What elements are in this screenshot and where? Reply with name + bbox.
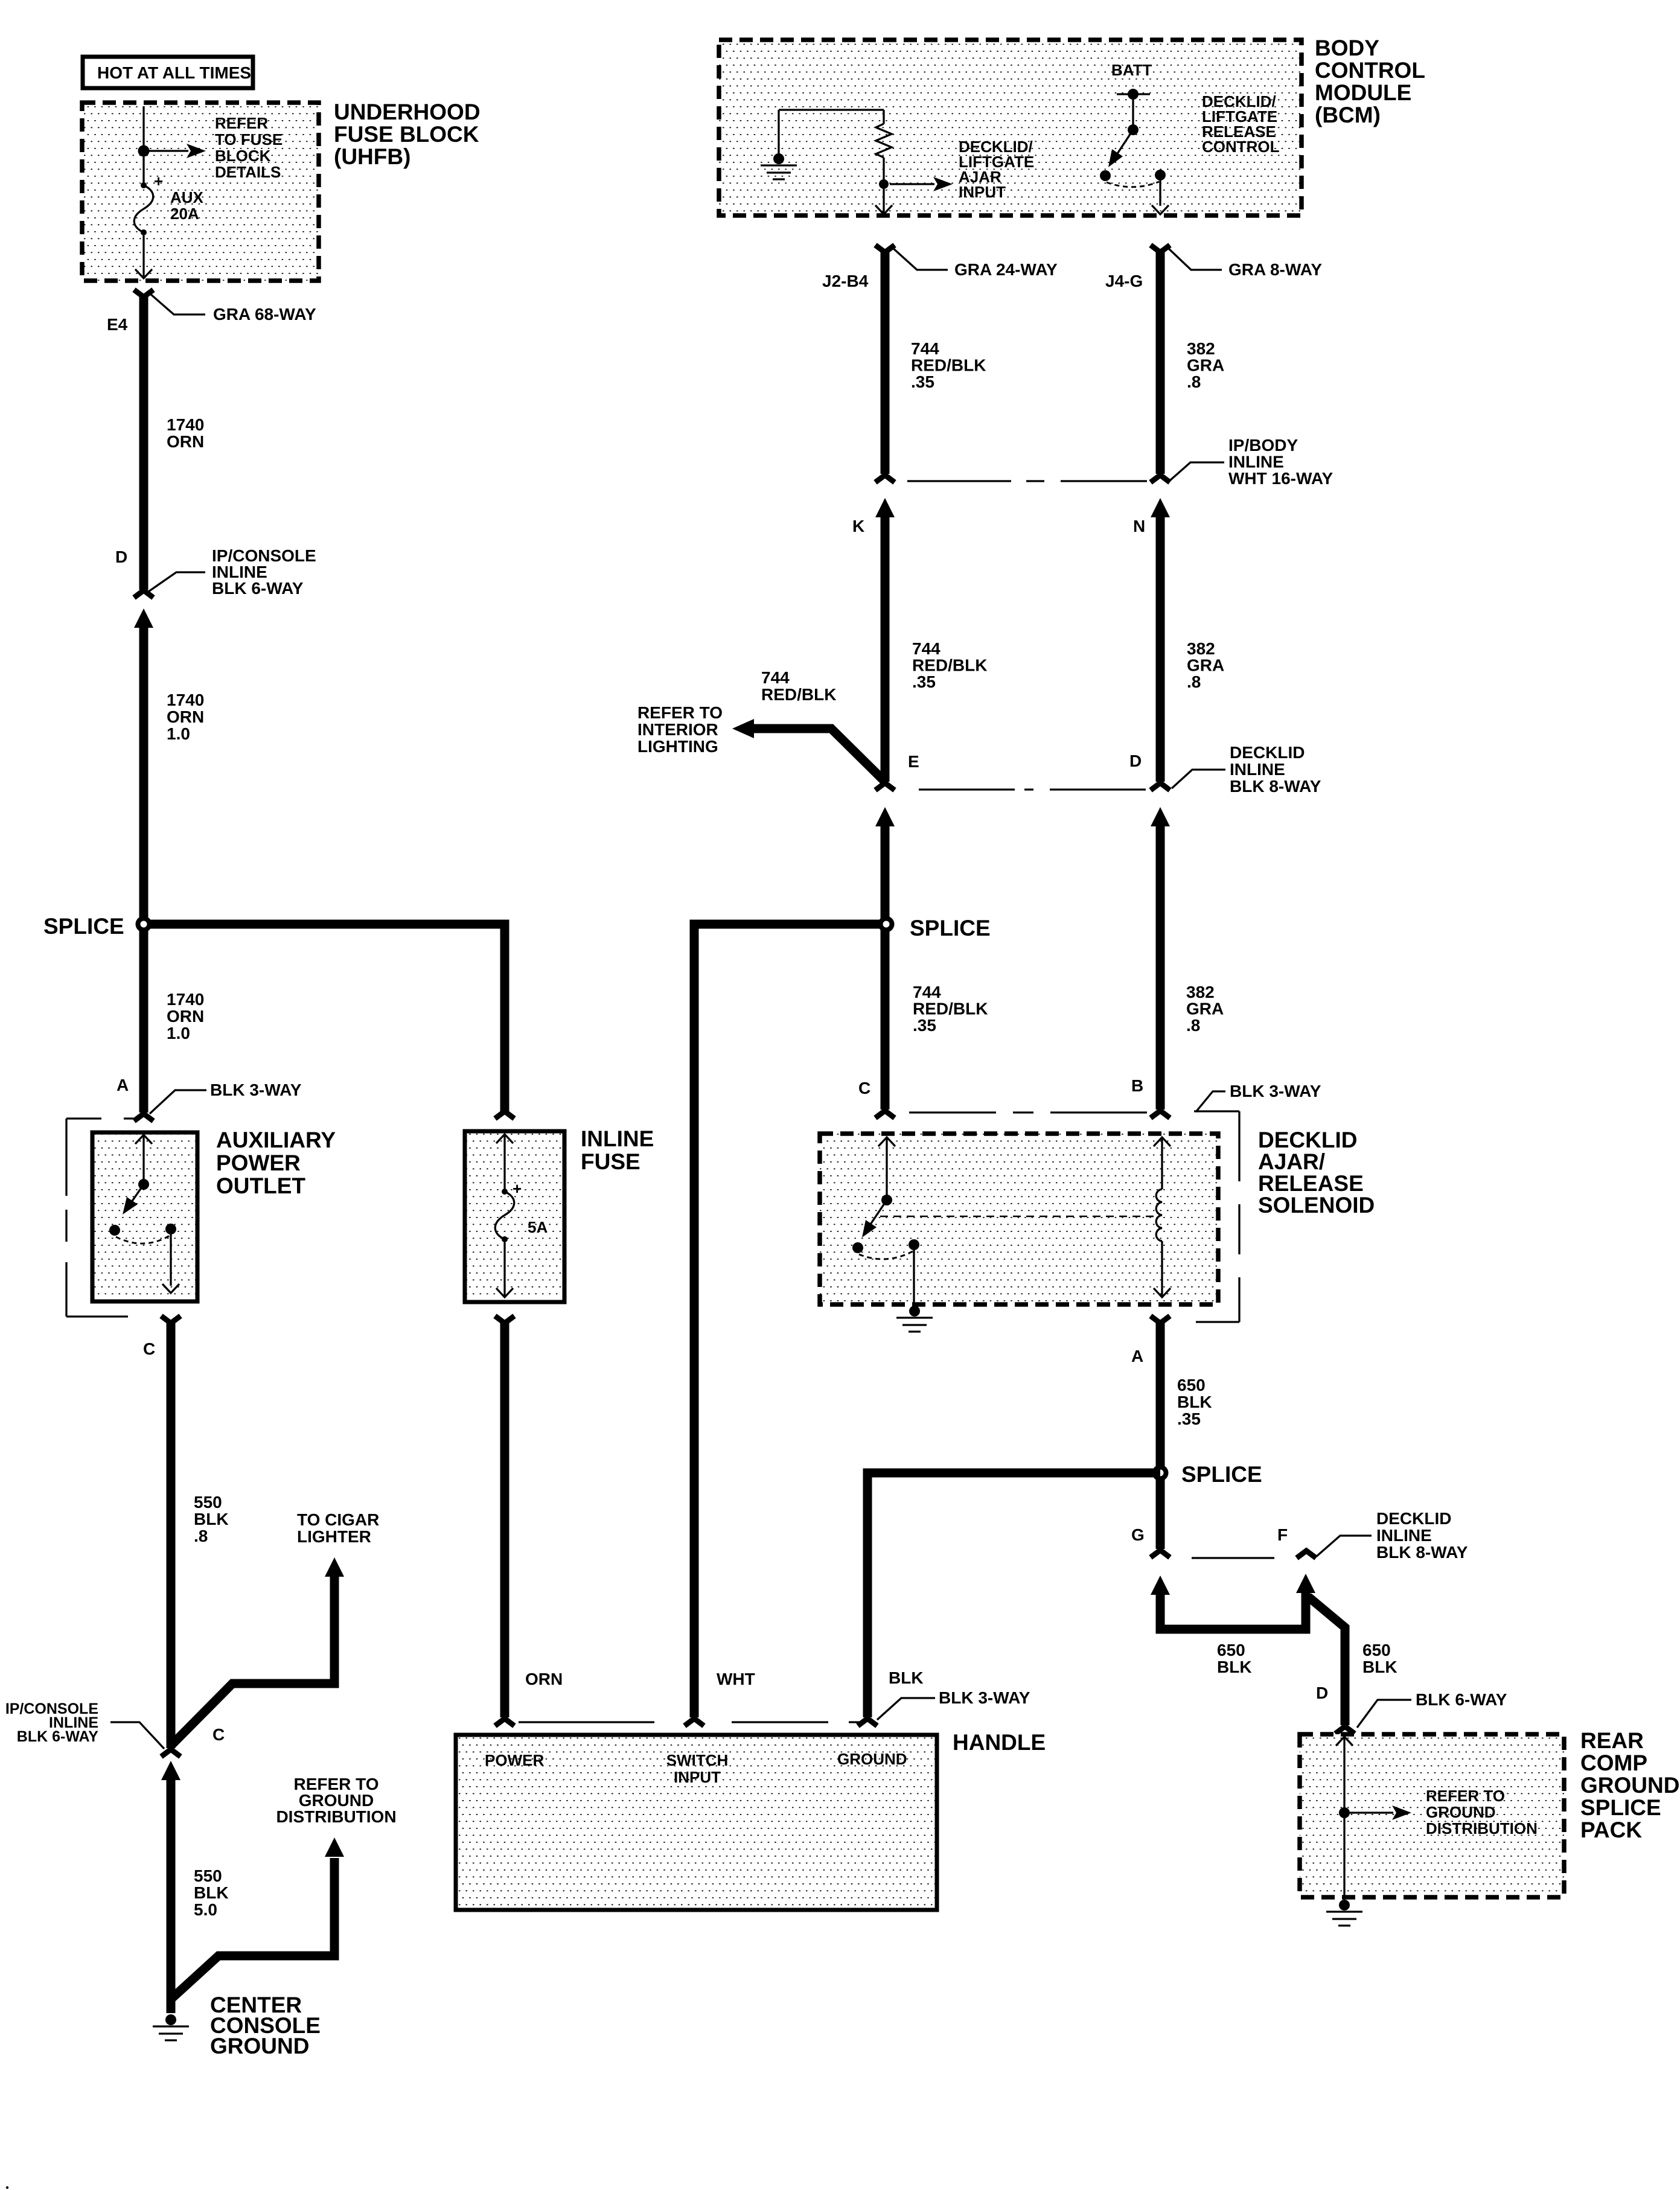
svg-text:E: E bbox=[908, 752, 919, 771]
svg-text:J2-B4: J2-B4 bbox=[822, 272, 869, 290]
svg-text:744: 744 bbox=[911, 339, 939, 358]
svg-text:382: 382 bbox=[1187, 639, 1215, 658]
svg-text:CONTROL: CONTROL bbox=[1315, 58, 1425, 83]
svg-text:F: F bbox=[1277, 1525, 1288, 1544]
svg-text:CONTROL: CONTROL bbox=[1202, 138, 1280, 156]
svg-text:744: 744 bbox=[761, 668, 790, 687]
svg-text:A: A bbox=[1131, 1347, 1143, 1365]
svg-text:INLINE: INLINE bbox=[1230, 760, 1285, 779]
svg-text:650: 650 bbox=[1177, 1376, 1206, 1394]
svg-text:382: 382 bbox=[1187, 339, 1215, 358]
svg-text:.35: .35 bbox=[911, 372, 934, 391]
svg-text:BLK 3-WAY: BLK 3-WAY bbox=[1230, 1082, 1321, 1100]
svg-text:(BCM): (BCM) bbox=[1315, 103, 1381, 127]
svg-text:.35: .35 bbox=[913, 1016, 936, 1035]
svg-text:TO CIGAR: TO CIGAR bbox=[297, 1510, 379, 1529]
svg-text:POWER: POWER bbox=[485, 1751, 544, 1769]
svg-text:SPLICE: SPLICE bbox=[910, 916, 991, 940]
svg-text:FUSE: FUSE bbox=[581, 1149, 640, 1174]
svg-text:BLK: BLK bbox=[889, 1668, 924, 1687]
svg-text:744: 744 bbox=[913, 983, 941, 1001]
svg-text:HANDLE: HANDLE bbox=[953, 1730, 1046, 1755]
svg-text:RED/BLK: RED/BLK bbox=[911, 356, 986, 375]
svg-text:.8: .8 bbox=[1187, 372, 1201, 391]
svg-text:550: 550 bbox=[194, 1493, 222, 1512]
svg-text:+: + bbox=[154, 172, 163, 190]
svg-text:HOT AT ALL TIMES: HOT AT ALL TIMES bbox=[97, 63, 251, 82]
svg-text:K: K bbox=[852, 517, 864, 535]
svg-text:UNDERHOOD: UNDERHOOD bbox=[334, 100, 481, 124]
svg-text:AUXILIARY: AUXILIARY bbox=[216, 1128, 336, 1152]
svg-text:TO FUSE: TO FUSE bbox=[215, 130, 283, 148]
svg-text:BLK 6-WAY: BLK 6-WAY bbox=[212, 579, 304, 598]
svg-text:BLK: BLK bbox=[1177, 1393, 1212, 1411]
svg-text:550: 550 bbox=[194, 1866, 222, 1885]
svg-text:C: C bbox=[143, 1339, 155, 1358]
svg-text:REFER: REFER bbox=[215, 114, 268, 132]
svg-text:DISTRIBUTION: DISTRIBUTION bbox=[1426, 1819, 1538, 1837]
svg-text:J4-G: J4-G bbox=[1105, 272, 1143, 290]
svg-text:.8: .8 bbox=[194, 1527, 208, 1545]
svg-text:A: A bbox=[117, 1076, 129, 1094]
svg-text:(UHFB): (UHFB) bbox=[334, 144, 410, 169]
svg-text:C: C bbox=[858, 1079, 870, 1097]
svg-text:BLK: BLK bbox=[1362, 1658, 1397, 1676]
svg-text:INLINE: INLINE bbox=[1228, 453, 1284, 471]
svg-text:C: C bbox=[212, 1725, 225, 1744]
svg-text:.8: .8 bbox=[1187, 672, 1201, 691]
svg-text:.8: .8 bbox=[1186, 1016, 1200, 1035]
svg-text:BLK 3-WAY: BLK 3-WAY bbox=[939, 1688, 1030, 1707]
svg-text:SPLICE: SPLICE bbox=[1580, 1795, 1661, 1820]
svg-text:BLK: BLK bbox=[194, 1510, 229, 1528]
svg-text:BLK 8-WAY: BLK 8-WAY bbox=[1376, 1543, 1468, 1562]
svg-text:D: D bbox=[115, 547, 127, 566]
svg-text:5.0: 5.0 bbox=[194, 1900, 217, 1919]
svg-text:RED/BLK: RED/BLK bbox=[913, 1000, 988, 1018]
svg-text:1740: 1740 bbox=[167, 990, 204, 1009]
svg-text:GROUND: GROUND bbox=[837, 1750, 907, 1768]
svg-text:INPUT: INPUT bbox=[959, 183, 1006, 201]
svg-text:D: D bbox=[1129, 752, 1142, 770]
svg-text:BODY: BODY bbox=[1315, 36, 1379, 60]
svg-text:INLINE: INLINE bbox=[1376, 1526, 1432, 1545]
svg-text:382: 382 bbox=[1186, 983, 1215, 1001]
svg-text:ORN: ORN bbox=[167, 1007, 204, 1026]
svg-text:MODULE: MODULE bbox=[1315, 80, 1411, 105]
svg-text:INPUT: INPUT bbox=[674, 1768, 721, 1786]
svg-text:B: B bbox=[1131, 1076, 1143, 1095]
svg-text:REFER TO: REFER TO bbox=[637, 703, 723, 722]
svg-text:LIGHTING: LIGHTING bbox=[637, 737, 718, 756]
svg-text:E4: E4 bbox=[107, 315, 128, 334]
svg-text:DETAILS: DETAILS bbox=[215, 163, 281, 181]
svg-text:ORN: ORN bbox=[167, 432, 204, 451]
svg-text:BLK: BLK bbox=[1217, 1658, 1252, 1676]
svg-text:744: 744 bbox=[912, 639, 941, 658]
svg-text:GRA: GRA bbox=[1187, 356, 1224, 375]
svg-text:OUTLET: OUTLET bbox=[216, 1173, 305, 1198]
svg-text:BLK 3-WAY: BLK 3-WAY bbox=[210, 1081, 302, 1099]
svg-text:D: D bbox=[1316, 1684, 1328, 1702]
svg-text:AUX: AUX bbox=[170, 188, 204, 206]
svg-text:WHT: WHT bbox=[717, 1670, 755, 1688]
svg-text:GRA 68-WAY: GRA 68-WAY bbox=[213, 305, 316, 324]
svg-text:PACK: PACK bbox=[1580, 1818, 1642, 1842]
svg-text:FUSE BLOCK: FUSE BLOCK bbox=[334, 122, 479, 147]
svg-text:DECKLID: DECKLID bbox=[1376, 1509, 1451, 1528]
svg-text:WHT 16-WAY: WHT 16-WAY bbox=[1228, 469, 1333, 488]
svg-text:COMP: COMP bbox=[1580, 1751, 1647, 1775]
svg-text:.35: .35 bbox=[1177, 1409, 1201, 1428]
svg-text:.35: .35 bbox=[912, 672, 936, 691]
svg-text:REAR: REAR bbox=[1580, 1728, 1644, 1753]
svg-text:BATT: BATT bbox=[1111, 61, 1152, 79]
svg-text:GROUND: GROUND bbox=[210, 2034, 309, 2058]
svg-text:INTERIOR: INTERIOR bbox=[637, 720, 718, 739]
svg-text:GRA: GRA bbox=[1186, 1000, 1224, 1018]
svg-text:SOLENOID: SOLENOID bbox=[1258, 1193, 1375, 1218]
svg-text:RED/BLK: RED/BLK bbox=[761, 685, 836, 704]
svg-text:GROUND: GROUND bbox=[1426, 1803, 1496, 1821]
svg-text:5A: 5A bbox=[528, 1218, 548, 1236]
svg-text:BLOCK: BLOCK bbox=[215, 147, 271, 165]
svg-text:LIGHTER: LIGHTER bbox=[297, 1527, 371, 1546]
svg-text:BLK: BLK bbox=[194, 1883, 229, 1902]
svg-text:POWER: POWER bbox=[216, 1151, 301, 1175]
svg-text:GROUND: GROUND bbox=[1580, 1773, 1679, 1798]
svg-text:RED/BLK: RED/BLK bbox=[912, 656, 987, 675]
svg-text:650: 650 bbox=[1217, 1641, 1245, 1659]
svg-text:GRA 24-WAY: GRA 24-WAY bbox=[954, 260, 1058, 279]
svg-text:G: G bbox=[1131, 1525, 1145, 1544]
svg-text:1740: 1740 bbox=[167, 415, 204, 434]
svg-text:1740: 1740 bbox=[167, 691, 204, 709]
svg-text:DISTRIBUTION: DISTRIBUTION bbox=[276, 1807, 396, 1826]
svg-text:GRA: GRA bbox=[1187, 656, 1224, 675]
svg-text:ORN: ORN bbox=[525, 1670, 563, 1688]
svg-text:N: N bbox=[1133, 517, 1145, 535]
svg-text:SWITCH: SWITCH bbox=[666, 1751, 729, 1769]
svg-text:REFER TO: REFER TO bbox=[1426, 1787, 1505, 1805]
svg-text:BLK 8-WAY: BLK 8-WAY bbox=[1230, 777, 1321, 796]
svg-text:AJAR/: AJAR/ bbox=[1258, 1149, 1325, 1174]
svg-text:INLINE: INLINE bbox=[581, 1126, 654, 1151]
svg-text:BLK 6-WAY: BLK 6-WAY bbox=[1416, 1690, 1507, 1709]
svg-text:RELEASE: RELEASE bbox=[1258, 1171, 1364, 1196]
svg-text:IP/BODY: IP/BODY bbox=[1228, 436, 1298, 455]
svg-text:1.0: 1.0 bbox=[167, 1024, 190, 1042]
svg-text:DECKLID: DECKLID bbox=[1258, 1128, 1357, 1152]
svg-text:GRA 8-WAY: GRA 8-WAY bbox=[1228, 260, 1322, 279]
svg-text:+: + bbox=[513, 1180, 522, 1198]
svg-text:BLK 6-WAY: BLK 6-WAY bbox=[17, 1728, 99, 1745]
svg-text:SPLICE: SPLICE bbox=[1181, 1462, 1262, 1487]
svg-text:650: 650 bbox=[1362, 1641, 1391, 1659]
svg-text:SPLICE: SPLICE bbox=[43, 914, 124, 939]
svg-text:DECKLID: DECKLID bbox=[1230, 743, 1305, 762]
svg-text:20A: 20A bbox=[170, 205, 199, 223]
svg-text:1.0: 1.0 bbox=[167, 724, 190, 743]
svg-text:ORN: ORN bbox=[167, 707, 204, 726]
